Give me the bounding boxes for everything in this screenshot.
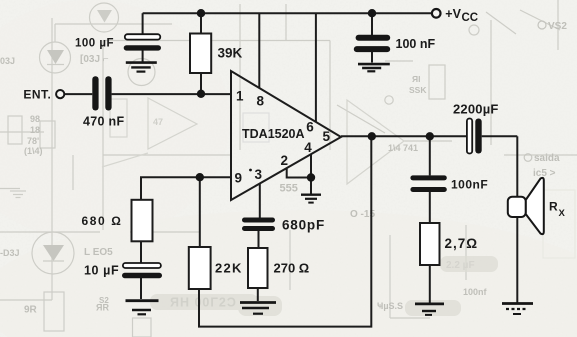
svg-text:680 Ω: 680 Ω xyxy=(82,214,123,228)
svg-text:100 nF: 100 nF xyxy=(396,37,436,51)
svg-text:-D3J: -D3J xyxy=(0,248,20,258)
svg-text:ҸµS.S: ҸµS.S xyxy=(377,301,403,311)
svg-text:22K: 22K xyxy=(215,261,243,276)
svg-text:(1\4): (1\4) xyxy=(24,146,43,156)
svg-text:1\4 741: 1\4 741 xyxy=(388,143,418,153)
svg-text:ENT.: ENT. xyxy=(23,87,51,101)
svg-text:2: 2 xyxy=(281,153,289,168)
svg-text:X: X xyxy=(559,208,566,219)
svg-text:47: 47 xyxy=(153,117,163,127)
svg-text:VS2: VS2 xyxy=(548,21,567,32)
svg-text:100nf: 100nf xyxy=(463,287,488,297)
svg-text:03J: 03J xyxy=(0,56,15,66)
svg-text:100 µF: 100 µF xyxy=(75,38,114,50)
svg-text:78': 78' xyxy=(27,136,39,146)
svg-text:8: 8 xyxy=(257,94,265,109)
svg-text:SSK: SSK xyxy=(409,85,427,95)
svg-text:4: 4 xyxy=(304,140,312,155)
svg-text:2200µF: 2200µF xyxy=(453,102,499,117)
svg-text:CC: CC xyxy=(462,12,479,24)
svg-text:1: 1 xyxy=(236,89,244,104)
svg-text:ic5 >: ic5 > xyxy=(533,168,556,179)
svg-text:680pF: 680pF xyxy=(282,218,325,233)
svg-text:18: 18 xyxy=(30,125,40,135)
svg-text:3: 3 xyxy=(255,167,263,182)
svg-text:+V: +V xyxy=(445,7,461,21)
svg-text:9: 9 xyxy=(235,171,243,186)
svg-text:555: 555 xyxy=(280,183,298,195)
svg-text:ЯI: ЯI xyxy=(412,74,420,84)
svg-text:TDA1520A: TDA1520A xyxy=(242,127,305,141)
svg-text:saida: saida xyxy=(534,153,560,164)
svg-text:S2: S2 xyxy=(99,296,109,305)
svg-text:9R: 9R xyxy=(24,305,38,316)
svg-text:2,7Ω: 2,7Ω xyxy=(445,236,479,251)
svg-text:100nF: 100nF xyxy=(451,178,488,192)
svg-text:39K: 39K xyxy=(218,46,243,61)
svg-text:270 Ω: 270 Ω xyxy=(274,261,310,276)
svg-text:R: R xyxy=(549,200,558,214)
svg-text:5: 5 xyxy=(323,129,331,144)
svg-text:L EO5: L EO5 xyxy=(84,247,113,258)
svg-text:[03J ⌐: [03J ⌐ xyxy=(80,54,109,65)
svg-text:98: 98 xyxy=(30,114,40,124)
svg-text:6: 6 xyxy=(306,120,314,135)
svg-text:10 µF: 10 µF xyxy=(84,264,119,278)
svg-text:470 nF: 470 nF xyxy=(83,114,124,128)
